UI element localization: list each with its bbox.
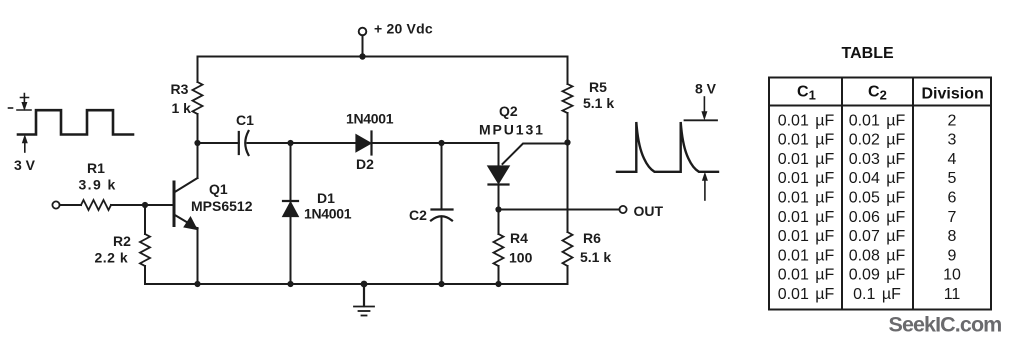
node C2 top junction xyxy=(438,140,444,146)
svg-text:+ 20 Vdc: + 20 Vdc xyxy=(374,21,433,37)
svg-text:0.04 µF: 0.04 µF xyxy=(849,170,906,187)
svg-text:10: 10 xyxy=(943,267,961,284)
wire R1 to base node xyxy=(111,204,173,206)
wire node down crossing OUT line xyxy=(567,143,569,233)
diode D2 xyxy=(356,132,372,155)
node base junction xyxy=(142,202,148,208)
resistor R2 xyxy=(144,205,146,234)
svg-text:D1: D1 xyxy=(317,190,335,206)
svg-text:5: 5 xyxy=(948,170,957,187)
svg-text:R3: R3 xyxy=(171,81,189,97)
svg-text:0.07 µF: 0.07 µF xyxy=(849,228,906,245)
input square-wave signal xyxy=(18,110,133,134)
svg-text:5.1 k: 5.1 k xyxy=(583,95,614,111)
supply terminal +20Vdc xyxy=(359,28,367,36)
output pulse waveform xyxy=(617,122,718,172)
table frame xyxy=(769,78,991,310)
svg-text:D2: D2 xyxy=(356,156,374,172)
wire D2 to C2 node xyxy=(372,142,442,144)
svg-text:MPU131: MPU131 xyxy=(479,122,545,138)
transistor Q2 (PUT) xyxy=(488,144,568,210)
svg-text:11: 11 xyxy=(944,286,961,303)
svg-text:7: 7 xyxy=(948,209,957,226)
svg-text:0.09 µF: 0.09 µF xyxy=(849,267,906,284)
node R4 rail junction xyxy=(495,281,501,287)
svg-text:MPS6512: MPS6512 xyxy=(191,198,253,214)
wire input to R1 xyxy=(60,204,81,206)
resistor R3 xyxy=(197,57,199,83)
wire R2 to ground rail xyxy=(145,266,198,284)
svg-text:0.02 µF: 0.02 µF xyxy=(849,132,906,149)
svg-text:6: 6 xyxy=(948,190,957,207)
svg-text:0.1 µF: 0.1 µF xyxy=(853,286,901,303)
svg-text:R2: R2 xyxy=(113,233,131,249)
svg-text:3.9 k: 3.9 k xyxy=(79,177,117,193)
svg-text:3: 3 xyxy=(948,132,957,149)
svg-text:1N4001: 1N4001 xyxy=(346,111,394,127)
svg-text:SeekIC.com: SeekIC.com xyxy=(889,313,1002,337)
diode D1 xyxy=(283,143,299,284)
svg-text:0.08 µF: 0.08 µF xyxy=(849,247,906,264)
wire node to D2 xyxy=(291,142,357,144)
svg-text:0.06 µF: 0.06 µF xyxy=(849,209,906,226)
output amplitude bottom arrow xyxy=(704,180,706,200)
svg-text:R1: R1 xyxy=(87,160,105,176)
svg-text:0.05 µF: 0.05 µF xyxy=(849,190,906,207)
svg-text:0.01 µF: 0.01 µF xyxy=(778,247,835,264)
terminal OUT xyxy=(619,206,626,213)
wire top rail xyxy=(198,56,568,58)
node gate divider junction xyxy=(564,139,570,145)
capacitor C1 xyxy=(239,131,249,155)
svg-text:Q2: Q2 xyxy=(499,103,518,119)
input amplitude bottom arrow xyxy=(24,139,26,152)
svg-text:0.01 µF: 0.01 µF xyxy=(778,228,835,245)
node D1 top junction xyxy=(287,140,293,146)
wire node to C1 xyxy=(198,142,239,144)
svg-text:8: 8 xyxy=(948,228,957,245)
input amplitude top arrowhead xyxy=(22,103,27,110)
resistor R1 xyxy=(81,200,111,210)
svg-text:C2: C2 xyxy=(409,207,427,223)
node collector/C1 junction xyxy=(194,140,200,146)
table rows xyxy=(778,112,961,303)
svg-text:C1: C1 xyxy=(236,112,254,128)
svg-text:1 k: 1 k xyxy=(172,100,192,116)
resistor R6 xyxy=(563,232,573,266)
svg-text:8 V: 8 V xyxy=(695,81,717,97)
node cathode/R4 junction xyxy=(495,206,501,212)
svg-text:Division: Division xyxy=(922,86,984,103)
wire bottom ground rail xyxy=(145,266,568,284)
stray mark left edge xyxy=(9,107,13,109)
svg-text:5.1 k: 5.1 k xyxy=(580,249,611,265)
svg-text:100: 100 xyxy=(509,250,533,266)
svg-text:0.01 µF: 0.01 µF xyxy=(778,112,835,129)
node D1 rail junction xyxy=(287,281,293,287)
wire node to Q2 anode xyxy=(442,143,499,166)
capacitor C2 xyxy=(431,143,453,284)
svg-text:TABLE: TABLE xyxy=(842,45,894,62)
resistor R5 xyxy=(567,57,569,85)
svg-text:0.01 µF: 0.01 µF xyxy=(778,286,835,303)
output amplitude top arrow xyxy=(703,97,705,113)
svg-text:OUT: OUT xyxy=(634,203,664,219)
ground xyxy=(354,284,374,316)
svg-text:9: 9 xyxy=(948,247,957,264)
svg-text:3 V: 3 V xyxy=(14,157,36,173)
svg-text:0.01 µF: 0.01 µF xyxy=(778,190,835,207)
resistor R4 xyxy=(498,210,500,235)
output peak level tick xyxy=(685,119,718,121)
transistor Q1 xyxy=(174,143,198,284)
svg-text:R5: R5 xyxy=(589,79,607,95)
node C2 rail junction xyxy=(438,281,444,287)
svg-text:0.01 µF: 0.01 µF xyxy=(849,112,906,129)
input terminal xyxy=(52,201,59,208)
svg-text:0.01 µF: 0.01 µF xyxy=(778,209,835,226)
node ground rail junction xyxy=(361,281,368,288)
svg-text:0.01 µF: 0.01 µF xyxy=(778,170,835,187)
wire supply stub xyxy=(362,35,364,56)
svg-text:1N4001: 1N4001 xyxy=(304,206,352,222)
svg-text:0.01 µF: 0.01 µF xyxy=(778,151,835,168)
svg-text:2: 2 xyxy=(948,112,957,129)
svg-text:0.03 µF: 0.03 µF xyxy=(849,151,906,168)
input amplitude top tick xyxy=(17,94,31,111)
svg-text:Q1: Q1 xyxy=(209,181,228,197)
svg-text:4: 4 xyxy=(948,151,957,168)
node supply junction xyxy=(359,53,365,59)
svg-text:0.01 µF: 0.01 µF xyxy=(778,267,835,284)
svg-text:R4: R4 xyxy=(510,230,528,246)
wire OUT line xyxy=(499,209,620,211)
svg-text:2.2 k: 2.2 k xyxy=(95,250,129,266)
node emitter rail junction xyxy=(194,281,200,287)
svg-text:0.01 µF: 0.01 µF xyxy=(778,132,835,149)
svg-text:R6: R6 xyxy=(583,230,601,246)
wire C1 to D1 node xyxy=(248,142,291,144)
